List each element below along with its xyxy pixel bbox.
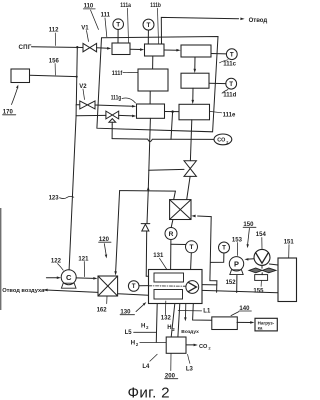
wire R gauge to fuel cell top bbox=[170, 240, 172, 270]
wire V2 inlet elbow bbox=[76, 104, 79, 106]
wire CO2 line with hop bbox=[112, 139, 214, 142]
wire motor to generator box bbox=[269, 264, 278, 265]
gauge T1 circle bbox=[113, 19, 124, 30]
svg-text:Отвод воздуха: Отвод воздуха bbox=[2, 288, 45, 294]
heat exchanger HX1 box with diagonals bbox=[170, 200, 191, 220]
wire HX1 bottom to R gauge bbox=[171, 220, 173, 228]
wire three-way valve inlet bbox=[76, 114, 106, 116]
svg-text:111b: 111b bbox=[150, 3, 161, 9]
wire SPG main line bbox=[32, 46, 84, 49]
box 111d reactor bbox=[181, 73, 209, 88]
pump P circle bbox=[229, 257, 243, 271]
scan edge artifact bbox=[0, 208, 1, 310]
electrode bar upper bbox=[154, 273, 184, 282]
expander box 155 bbox=[255, 275, 268, 281]
svg-text:L5: L5 bbox=[125, 330, 133, 336]
wire right riser down bbox=[210, 217, 217, 293]
box 111b reactor bbox=[145, 44, 165, 56]
humidifier box 162 with diagonals bbox=[98, 276, 118, 296]
gauge R circle bbox=[165, 228, 177, 240]
svg-text:T: T bbox=[189, 244, 193, 251]
wire box111b to box111f bbox=[152, 56, 154, 69]
label L1 with line bbox=[178, 310, 201, 312]
wire coupling to expander box bbox=[261, 273, 263, 275]
wire box111g bottom line mid bbox=[147, 190, 148, 223]
valve V1 bbox=[83, 43, 90, 51]
svg-text:132: 132 bbox=[161, 315, 172, 321]
wire H2 line 2 down bbox=[171, 304, 175, 337]
wire 123 line bbox=[69, 116, 76, 270]
svg-text:CO: CO bbox=[199, 344, 208, 350]
gauge T circle cathode bbox=[128, 281, 139, 292]
svg-text:R: R bbox=[169, 231, 174, 238]
valve three-way V3 bbox=[106, 111, 112, 119]
inverter box 140 bbox=[212, 317, 238, 330]
gauge T circle above fuel cell bbox=[186, 241, 198, 253]
electrode bar lower bbox=[154, 290, 183, 300]
svg-text:123: 123 bbox=[49, 196, 60, 202]
motor fan 154 circle bbox=[254, 249, 270, 265]
svg-text:P: P bbox=[234, 259, 239, 268]
wire box111f to box111g bbox=[149, 91, 151, 104]
box 151 generator bbox=[278, 258, 297, 302]
wire manifold line bbox=[120, 190, 176, 193]
svg-text:T: T bbox=[132, 283, 136, 290]
svg-text:Фиг. 2: Фиг. 2 bbox=[128, 385, 170, 400]
svg-text:121: 121 bbox=[78, 256, 89, 262]
wire valve side branch bbox=[149, 168, 184, 171]
wire T gauge branch bbox=[211, 253, 224, 262]
label 200 with leader bbox=[170, 354, 172, 371]
wire V2 to box 111g arrow bbox=[95, 105, 133, 106]
valve V4 vertical bbox=[184, 161, 196, 169]
box 111c reactor bbox=[181, 45, 211, 57]
wire CO2 outlet arrow bbox=[186, 344, 194, 346]
svg-text:Нагруз-: Нагруз- bbox=[258, 320, 275, 325]
svg-text:T: T bbox=[116, 22, 120, 29]
wire C outlet arrow to humidifier bbox=[76, 277, 94, 280]
compressor C circle bbox=[61, 270, 76, 285]
arrow flow up at manifold junction bbox=[147, 186, 150, 190]
node CO2 ellipse bbox=[214, 134, 232, 145]
wire anode H2 line down bbox=[155, 304, 158, 343]
svg-text:T: T bbox=[229, 81, 233, 88]
burner box 200 bbox=[166, 337, 186, 353]
wire electric line to inverter bbox=[193, 304, 212, 321]
svg-text:111: 111 bbox=[101, 13, 111, 19]
coupling diamonds bbox=[249, 268, 262, 273]
svg-text:156: 156 bbox=[49, 59, 60, 65]
wire box111a to box111b arrow bbox=[130, 48, 141, 50]
svg-text:155: 155 bbox=[253, 289, 264, 295]
wire T cathode stub bbox=[139, 285, 149, 287]
svg-text:Н: Н bbox=[167, 325, 171, 331]
wire fuel cell right port bbox=[202, 284, 217, 286]
wire box111b to box111c arrow bbox=[164, 49, 177, 51]
wire box111g to box111e with tee bbox=[165, 111, 179, 113]
wire SPG down branch bbox=[76, 47, 77, 104]
wire box111d to box111e arrow bbox=[192, 88, 194, 101]
wire manifold riser to heat exchanger bbox=[174, 191, 176, 199]
svg-text:C: C bbox=[66, 273, 72, 282]
wire T down to fuel cell top bbox=[190, 253, 193, 269]
svg-text:111g: 111g bbox=[111, 96, 122, 102]
valve V2 bbox=[80, 101, 88, 109]
wire air branch arrow down bbox=[185, 304, 187, 318]
wire three-way valve bottom to CO2 line bbox=[111, 125, 113, 139]
box 111f reactor bbox=[138, 69, 168, 91]
svg-text:154: 154 bbox=[256, 232, 267, 238]
wire manifold down to humidifier arrow bbox=[116, 191, 120, 272]
svg-text:111d: 111d bbox=[223, 93, 236, 99]
box 170 unit bbox=[11, 69, 30, 83]
svg-text:112: 112 bbox=[49, 28, 59, 34]
svg-text:111a: 111a bbox=[120, 3, 131, 9]
svg-text:L4: L4 bbox=[142, 364, 150, 370]
gauge T circle upper right bbox=[219, 242, 230, 253]
svg-text:Воздух: Воздух bbox=[181, 329, 199, 335]
gauge T2 circle bbox=[143, 19, 154, 30]
wire box111g bottom line upper bbox=[148, 118, 150, 190]
pump circle inside fuel cell bbox=[186, 281, 199, 294]
wire air inlet arrow to C bbox=[46, 277, 57, 279]
wire valve V4 to heat exchanger bbox=[187, 176, 190, 199]
svg-text:СПГ: СПГ bbox=[19, 44, 32, 51]
wire T1 stub bbox=[117, 30, 119, 44]
wire V1 outlet arrow bbox=[97, 47, 108, 50]
svg-text:Н: Н bbox=[141, 323, 145, 329]
box 111a reactor bbox=[112, 43, 130, 55]
svg-text:111f: 111f bbox=[112, 71, 124, 77]
node junction SPG branch bbox=[76, 46, 78, 48]
load box Nagruzka bbox=[255, 318, 277, 331]
gauge T circle 111c bbox=[226, 49, 237, 60]
svg-text:Н: Н bbox=[131, 341, 135, 347]
svg-text:L1: L1 bbox=[203, 309, 211, 315]
svg-text:V1: V1 bbox=[81, 26, 89, 32]
svg-text:CO: CO bbox=[217, 138, 225, 144]
wire inverter to load arrow bbox=[237, 321, 251, 323]
wire arrow motor to P bbox=[248, 258, 254, 260]
wire vent riser to Otvod bbox=[161, 17, 238, 44]
wire three-way valve to box 111g arrow bbox=[119, 114, 133, 117]
svg-text:T: T bbox=[222, 245, 226, 252]
label 162 with leader bbox=[106, 296, 108, 303]
svg-text:Отвод: Отвод bbox=[249, 18, 268, 24]
wire R to T branch bbox=[171, 243, 186, 245]
check valve CV1 bbox=[141, 223, 150, 225]
svg-text:111c: 111c bbox=[223, 62, 236, 68]
wire T2 stub bbox=[147, 30, 149, 44]
svg-text:111e: 111e bbox=[223, 113, 236, 119]
wire 156 line bbox=[30, 75, 77, 76]
label 155 with leader bbox=[260, 281, 262, 287]
wire HX1 right arrow in bbox=[191, 215, 195, 218]
wire P foot to line bbox=[236, 275, 238, 292]
wire box111c to box111d arrow bbox=[194, 57, 196, 70]
gauge T circle 111d bbox=[226, 78, 237, 89]
wire check valve to fuel cell bbox=[146, 231, 148, 276]
box 111e reactor bbox=[179, 104, 210, 120]
wire fuel cell to generator line bbox=[202, 290, 278, 292]
wire line into burner top right bbox=[178, 304, 180, 337]
wire motor to coupling bbox=[261, 266, 263, 269]
label 111e with leader bbox=[210, 111, 222, 112]
box 131 fuel cell outer bbox=[149, 270, 203, 304]
box 110 outer boundary bbox=[97, 37, 218, 132]
svg-text:T: T bbox=[147, 22, 151, 29]
box 111g reactor bbox=[137, 104, 165, 118]
svg-text:122: 122 bbox=[51, 258, 62, 264]
wire tee down to CO2 line bbox=[171, 112, 173, 140]
svg-text:2: 2 bbox=[226, 140, 228, 144]
wire left riser to three-way valve bbox=[75, 105, 77, 116]
svg-text:L3: L3 bbox=[186, 367, 194, 373]
wire air discharge line bbox=[43, 289, 47, 292]
wire box111e bottom to valve bbox=[190, 120, 191, 161]
node junction 156 bbox=[76, 76, 78, 78]
svg-text:162: 162 bbox=[97, 308, 108, 314]
svg-text:ка: ка bbox=[258, 326, 263, 331]
svg-text:T: T bbox=[230, 51, 234, 58]
wire humidifier to fuel cell lower bbox=[118, 294, 149, 296]
electrolyte dash-dot line bbox=[149, 285, 186, 287]
svg-text:131: 131 bbox=[153, 253, 164, 259]
svg-text:152: 152 bbox=[226, 280, 237, 286]
